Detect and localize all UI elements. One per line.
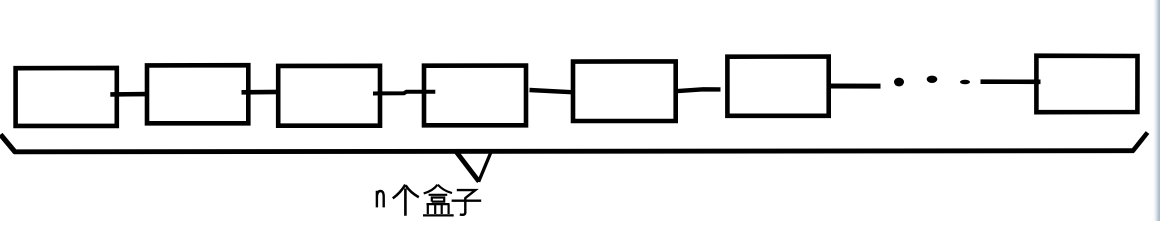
box 3 (278, 66, 380, 126)
label char 子 (452, 190, 482, 215)
box 7 (1036, 56, 1137, 112)
wire box1-box2 (110, 92, 146, 97)
wire box3-box4 (373, 92, 435, 94)
brace V-notch right stroke (479, 153, 491, 182)
brace left end diagonal (1, 135, 16, 153)
label char 个 (393, 185, 419, 216)
brace V-notch left stroke (456, 152, 479, 182)
brace right end diagonal (1133, 133, 1148, 152)
brace main line (14, 151, 1134, 152)
box 1 (16, 68, 117, 126)
wire box5-box6 (674, 89, 721, 91)
wire box2-box3 (242, 90, 281, 95)
box 2 (147, 65, 248, 123)
wire dots-box7 (981, 79, 1041, 84)
ellipsis dot 1 (894, 78, 904, 87)
wire box4-box5 (530, 90, 572, 92)
ellipsis dot 3 (960, 80, 970, 85)
right window edge gradient (1151, 0, 1160, 221)
label char 盒 (423, 185, 454, 216)
box 4 (424, 66, 526, 126)
ellipsis dot 2 (927, 76, 938, 83)
box 5 (573, 61, 676, 121)
wire box6-dots (827, 84, 881, 89)
box 6 (727, 57, 828, 116)
label letter n (377, 191, 384, 208)
